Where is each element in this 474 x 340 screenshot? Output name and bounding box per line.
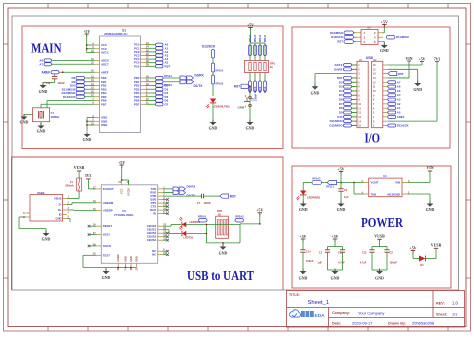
- svg-text:+5V: +5V: [381, 20, 388, 24]
- svg-text:GND: GND: [39, 90, 48, 94]
- svg-text:1/1: 1/1: [452, 313, 457, 317]
- wire LEDPWR to ground: [302, 195, 304, 204]
- svg-text:GND: GND: [101, 123, 107, 127]
- svg-text:1uF: 1uF: [317, 261, 322, 265]
- power labels VIN +5V 7V3 (I/O): [406, 57, 441, 62]
- svg-text:CBUS4: CBUS4: [147, 238, 157, 242]
- capacitor C11 4.7uF: [338, 247, 345, 271]
- net flag D13/SCK (header right): [388, 123, 409, 127]
- power VUSB (C12/C2): [374, 235, 385, 247]
- svg-text:USB to UART: USB to UART: [187, 268, 254, 283]
- canvas border: [12, 16, 459, 290]
- svg-text:PB7: PB7: [101, 102, 107, 106]
- svg-text:TITLE:: TITLE:: [289, 293, 300, 297]
- section box MAIN: [22, 26, 283, 149]
- wires C12/C2 bottom: [372, 270, 387, 271]
- wires RP1 top: [250, 28, 265, 61]
- svg-text:POWER: POWER: [361, 215, 403, 230]
- svg-text:RST: RST: [165, 64, 171, 68]
- power +5V (LEDs): [256, 209, 263, 225]
- section box I/O: [292, 27, 450, 148]
- svg-text:C14: C14: [306, 250, 311, 254]
- svg-text:4.7uF: 4.7uF: [360, 261, 367, 265]
- svg-text:D1: D1: [420, 263, 424, 267]
- svg-text:ADJ/GND: ADJ/GND: [387, 192, 400, 196]
- svg-text:RST: RST: [230, 194, 236, 198]
- capacitor C1 1uF: [317, 247, 342, 271]
- led LEDPWR1: [297, 183, 321, 201]
- resistor RP1A2 (power led): [303, 177, 341, 188]
- svg-text:D0/RX: D0/RX: [187, 185, 196, 189]
- svg-text:U1: U1: [383, 174, 387, 178]
- svg-text:GND: GND: [246, 127, 255, 131]
- svg-text:AGND: AGND: [116, 254, 120, 262]
- svg-text:GND: GND: [380, 49, 389, 53]
- svg-text:LEDBUILTIN1: LEDBUILTIN1: [213, 104, 231, 108]
- capacitor C12 100nF: [43, 74, 65, 85]
- svg-text:AREF: AREF: [41, 71, 50, 75]
- resistor network RP1 1k: [245, 61, 276, 73]
- power +5V (C14): [300, 235, 307, 250]
- svg-text:GND: GND: [129, 256, 133, 262]
- svg-text:100nF: 100nF: [390, 261, 398, 265]
- resistor RP1A2 chain: [211, 58, 224, 96]
- svg-text:GND: GND: [135, 256, 139, 262]
- wire crystal bottom to ground: [40, 122, 42, 126]
- svg-text:RSCK: RSCK: [265, 86, 267, 93]
- power +5V (diode): [410, 246, 420, 258]
- capacitor C6 (RST): [238, 93, 258, 109]
- svg-text:USBDP: USBDP: [103, 208, 113, 212]
- svg-text:C11: C11: [338, 251, 343, 255]
- svg-text:1uF: 1uF: [344, 195, 349, 199]
- svg-text:+5V: +5V: [247, 23, 254, 27]
- net flag RP2A1: [198, 215, 207, 222]
- logo EasyEDA: [290, 310, 326, 319]
- power +5V (MAIN MCU): [83, 30, 90, 37]
- wire VIN to regulator: [407, 171, 430, 183]
- svg-text:RST: RST: [398, 72, 404, 76]
- svg-text:+5V: +5V: [419, 58, 426, 62]
- led LEDTX1: [163, 226, 194, 239]
- ground (FT232): [102, 268, 111, 281]
- svg-text:3V3: 3V3: [85, 174, 92, 178]
- net flags A6 A7 (ADC pins): [39, 59, 94, 67]
- mcu U1 ATMEGA328P-AU: [91, 28, 149, 132]
- svg-text:16MHz: 16MHz: [51, 115, 60, 119]
- net flag RST (MAIN): [234, 84, 251, 91]
- svg-text:D1/TX: D1/TX: [187, 194, 196, 198]
- svg-text:ADC7: ADC7: [101, 62, 109, 66]
- svg-text:A7: A7: [39, 62, 43, 66]
- svg-text:RSCK: RSCK: [255, 86, 257, 93]
- svg-text:D0/RX: D0/RX: [195, 74, 205, 78]
- ground (header left): [311, 74, 352, 96]
- net flag RST (PC6): [146, 64, 171, 68]
- svg-text:GND: GND: [102, 276, 111, 280]
- net flags D2-D7 (PD2-PD7): [146, 84, 169, 107]
- label POWER: [361, 215, 403, 230]
- resistor RP1B1 + arrows D1/TX: [146, 80, 204, 88]
- capacitor C4 1uF: [338, 183, 349, 204]
- svg-text:500mA: 500mA: [65, 183, 74, 187]
- wire VIN to header row4: [388, 61, 409, 78]
- led LEDRX1: [163, 217, 201, 227]
- net flag RP2A2: [235, 215, 244, 222]
- svg-text:GND: GND: [331, 277, 340, 281]
- section box USB to UART: [12, 157, 284, 290]
- resistor network RP2 1K: [216, 209, 229, 238]
- svg-text:GND: GND: [413, 88, 422, 92]
- svg-text:D0/RX: D0/RX: [334, 67, 342, 71]
- ground (RP2): [219, 244, 228, 256]
- svg-text:Sheet:: Sheet:: [436, 313, 447, 317]
- header USB shield connectors: [352, 56, 388, 128]
- ground (USB2): [42, 231, 51, 242]
- svg-text:+5V: +5V: [338, 167, 345, 171]
- svg-text:Sheet_1: Sheet_1: [308, 300, 330, 306]
- capacitor C7 100nF + RST flag: [163, 194, 236, 205]
- svg-text:LEDPWR1: LEDPWR1: [307, 196, 321, 200]
- wire +5V to header row1: [388, 62, 422, 66]
- crystal Y1 16MHz: [33, 108, 60, 122]
- svg-text:RP1A2: RP1A2: [313, 177, 322, 180]
- ground (MCU GND pins): [83, 118, 95, 143]
- net flag D11/MOSI (ICSP): [386, 35, 409, 39]
- wire GND (I/O right): [388, 69, 422, 92]
- svg-text:RI: RI: [153, 212, 156, 216]
- ground (LED): [209, 120, 218, 131]
- wire USB2 D+ to USBDP: [67, 209, 96, 211]
- net flags ICSP left: [330, 31, 356, 44]
- svg-text:VOUT: VOUT: [371, 181, 379, 185]
- regulator U1 AMS1117: [361, 174, 410, 197]
- svg-text:LEDTX1: LEDTX1: [183, 235, 194, 239]
- wire USB2 GND down: [67, 219, 70, 223]
- svg-text:2023-09-17: 2023-09-17: [352, 321, 373, 326]
- svg-text:+5V: +5V: [83, 30, 90, 34]
- label MAIN: [31, 41, 62, 56]
- svg-text:1.0: 1.0: [452, 301, 458, 306]
- svg-text:RP1C1: RP1C1: [326, 186, 335, 189]
- net flag RST (header right): [388, 72, 404, 76]
- svg-text:GND: GND: [37, 130, 46, 134]
- ground (C4): [337, 201, 346, 212]
- wire LED to ground: [212, 103, 214, 122]
- svg-text:GND: GND: [299, 277, 308, 281]
- power VUSB flag: [74, 166, 85, 178]
- svg-text:+5V: +5V: [410, 246, 417, 250]
- svg-text:VIN: VIN: [426, 166, 433, 170]
- svg-text:D13/SCK: D13/SCK: [331, 35, 343, 39]
- svg-text:G: G: [23, 213, 25, 215]
- svg-text:RP2A1: RP2A1: [198, 215, 207, 219]
- svg-text:ATMEGA328P-AU: ATMEGA328P-AU: [104, 32, 127, 36]
- connector USB2: [23, 191, 70, 221]
- svg-text:D1/TX: D1/TX: [194, 84, 204, 88]
- svg-text:AREF: AREF: [397, 115, 405, 119]
- svg-text:RP1A2: RP1A2: [216, 83, 225, 86]
- svg-text:VUSB: VUSB: [431, 244, 442, 248]
- ground (ICSP): [380, 42, 389, 53]
- svg-text:D11/MOSI: D11/MOSI: [396, 35, 409, 39]
- net flag 3V3: [85, 174, 92, 179]
- wire PB6/PB7 to crystal: [41, 101, 95, 108]
- power +5V (FT232): [118, 161, 128, 185]
- net flags D8-D13 (PB0-PB5): [62, 76, 95, 99]
- svg-text:AVCC: AVCC: [101, 51, 109, 55]
- net flags header right column: [388, 80, 405, 119]
- svg-text:RP1A1: RP1A1: [249, 34, 252, 42]
- wire ADJ/GND to ground: [407, 194, 430, 204]
- svg-text:D-: D-: [59, 203, 62, 207]
- svg-text:3V3OUT: 3V3OUT: [103, 187, 114, 191]
- svg-text:GND: GND: [219, 252, 228, 256]
- svg-text:D+: D+: [58, 208, 62, 212]
- net flags D0/RX D1/TX (FT232): [163, 185, 196, 198]
- net flag AREF + wire: [41, 71, 94, 75]
- resistor RP1A1 + arrows D0/RX: [146, 74, 205, 81]
- title block texts: [289, 293, 458, 326]
- svg-text:RST: RST: [234, 84, 240, 88]
- label I/O: [365, 131, 381, 146]
- svg-text:C4: C4: [344, 188, 348, 192]
- svg-text:RP1A1: RP1A1: [216, 70, 225, 73]
- svg-text:20h65a0208: 20h65a0208: [412, 321, 435, 326]
- no-connect marks (FT232 left): [88, 225, 97, 247]
- svg-text:GND: GND: [124, 256, 128, 262]
- svg-text:TEST: TEST: [103, 253, 110, 257]
- svg-text:GND: GND: [209, 127, 218, 131]
- junction dots VCC: [86, 44, 88, 50]
- svg-text:NC: NC: [152, 253, 156, 257]
- net flags above RP1: [249, 34, 267, 55]
- ground (AREF cap): [39, 83, 48, 94]
- svg-text:100nF: 100nF: [57, 81, 65, 85]
- svg-text:RP2A2: RP2A2: [235, 215, 244, 219]
- svg-text:+5V: +5V: [300, 235, 307, 239]
- svg-text:VCCIO: VCCIO: [126, 188, 130, 196]
- power VIN flag: [426, 166, 433, 171]
- ground (crystal left): [20, 114, 29, 125]
- svg-text:USBDM: USBDM: [103, 201, 114, 205]
- wire 3V3 to 3V3OUT: [88, 179, 96, 189]
- wires C1/C11 bottom: [328, 270, 343, 271]
- title block frame: [287, 291, 465, 328]
- svg-text:RP1A1: RP1A1: [259, 34, 262, 42]
- net flags header left column: [329, 63, 357, 127]
- svg-text:OSCI: OSCI: [103, 233, 110, 237]
- svg-text:EDA: EDA: [315, 313, 326, 319]
- wires RP2/LED loop: [186, 224, 259, 247]
- ground (LEDPWR): [299, 201, 308, 212]
- wire RST to ground: [249, 92, 251, 123]
- svg-text:GND: GND: [56, 217, 62, 221]
- svg-text:+5V: +5V: [256, 209, 263, 213]
- svg-text:U5: U5: [122, 209, 126, 213]
- svg-text:C2: C2: [390, 251, 394, 255]
- power +5V (C1/C11): [332, 235, 339, 247]
- capacitor C14 100nF: [300, 250, 313, 272]
- svg-text:D13/SCK: D13/SCK: [63, 95, 76, 99]
- svg-text:OSCO: OSCO: [103, 244, 112, 248]
- net flag D13/SCK (LED chain): [202, 45, 216, 58]
- svg-text:GND: GND: [337, 208, 346, 212]
- svg-text:RP1: RP1: [270, 62, 276, 66]
- svg-text:Company:: Company:: [332, 311, 350, 315]
- wire USB2 D- to USBDM: [67, 203, 96, 205]
- ground (crystal bottom): [37, 123, 46, 134]
- svg-text:VUSB: VUSB: [374, 235, 385, 239]
- wire TEST to ground rail: [83, 255, 137, 268]
- svg-text:C12: C12: [362, 251, 367, 255]
- wire +5V to VCC pins: [87, 34, 95, 53]
- net flags below RP1: [249, 73, 267, 94]
- svg-text:GND: GND: [83, 138, 92, 142]
- power +5V (RP1 pullups): [247, 23, 254, 30]
- svg-text:Drawn By:: Drawn By:: [388, 322, 406, 326]
- svg-text:TAB: TAB: [371, 192, 377, 196]
- svg-text:VUSB: VUSB: [74, 166, 85, 170]
- svg-text:D12/MISO: D12/MISO: [329, 123, 343, 127]
- svg-text:PD7: PD7: [134, 102, 140, 106]
- svg-text:4.7uF: 4.7uF: [338, 261, 345, 265]
- svg-text:GND: GND: [426, 208, 435, 212]
- svg-text:AREF: AREF: [101, 70, 109, 74]
- svg-text:D13/SCK: D13/SCK: [397, 123, 409, 127]
- svg-text:100nF: 100nF: [306, 259, 314, 263]
- svg-text:D12/MISO: D12/MISO: [330, 31, 344, 35]
- wire fuse to VBUS: [67, 191, 79, 199]
- svg-text:GND: GND: [42, 238, 51, 242]
- svg-text:FT232RL-REEL: FT232RL-REEL: [114, 213, 134, 217]
- ground (RST net): [246, 120, 255, 131]
- svg-text:D7: D7: [165, 102, 169, 106]
- wire VOUT net: [340, 182, 363, 194]
- svg-text:Date:: Date:: [332, 322, 341, 326]
- ground (C12/C2): [375, 269, 384, 281]
- header ICSP (I/O top): [356, 28, 383, 45]
- svg-text:GND: GND: [375, 277, 384, 281]
- power +5V (ICSP): [381, 20, 388, 33]
- svg-text:Your Company: Your Company: [358, 311, 384, 316]
- svg-text:VBUS: VBUS: [54, 197, 62, 201]
- svg-text:RSCK: RSCK: [260, 86, 262, 93]
- label USB to UART: [187, 268, 254, 283]
- svg-text:VIN: VIN: [395, 181, 400, 185]
- svg-text:VCC: VCC: [120, 188, 124, 194]
- svg-text:+5V: +5V: [118, 161, 125, 165]
- section box POWER: [292, 166, 451, 288]
- svg-text:RP1A1: RP1A1: [164, 75, 173, 78]
- svg-text:RP1A1: RP1A1: [264, 34, 267, 42]
- svg-text:USB: USB: [366, 56, 374, 60]
- svg-text:PC6: PC6: [134, 64, 140, 68]
- svg-text:ID: ID: [59, 213, 62, 217]
- svg-text:RST: RST: [337, 40, 343, 44]
- power VUSB (diode out): [426, 244, 442, 259]
- fuse F1 500mA: [65, 178, 81, 191]
- ground (regulator): [426, 201, 435, 212]
- svg-text:C1: C1: [319, 251, 323, 255]
- capacitor C12 4.7uF: [360, 247, 387, 271]
- svg-text:I/O: I/O: [365, 131, 381, 146]
- svg-text:RESET: RESET: [103, 224, 113, 228]
- wire crystal left to ground: [24, 115, 33, 117]
- wire USB2 shell loop: [19, 217, 46, 233]
- ic U5 FT232RL-REEL: [93, 180, 167, 271]
- svg-text:REV:: REV:: [436, 302, 445, 306]
- svg-text:+5V: +5V: [332, 235, 339, 239]
- svg-text:RP1A1: RP1A1: [254, 34, 257, 42]
- svg-text:C12: C12: [46, 81, 51, 85]
- diode D1: [419, 256, 426, 268]
- net flags A0-A5 (PC0-PC5): [146, 43, 169, 65]
- svg-text:GND: GND: [238, 105, 244, 109]
- svg-text:MAIN: MAIN: [31, 41, 62, 56]
- power +5V (regulator out): [338, 167, 345, 182]
- capacitor C2 100nF: [384, 247, 397, 271]
- svg-text:GND: GND: [311, 92, 320, 96]
- svg-text:C7: C7: [197, 201, 201, 205]
- svg-text:100nF: 100nF: [204, 201, 212, 205]
- led LEDBUILTIN1: [206, 99, 230, 109]
- svg-text:VIN: VIN: [406, 57, 413, 61]
- svg-text:GND: GND: [299, 208, 308, 212]
- svg-text:GND: GND: [20, 121, 29, 125]
- svg-text:D13/SCK: D13/SCK: [202, 45, 216, 49]
- svg-text:1K: 1K: [218, 212, 221, 216]
- ground (C1/C11): [331, 269, 340, 281]
- ground (C14): [299, 269, 308, 281]
- svg-text:7V3: 7V3: [434, 58, 441, 62]
- svg-text:100nF: 100nF: [254, 93, 257, 101]
- no-connect marks (FT232 right): [163, 198, 169, 256]
- wire 7V3 down right: [388, 62, 437, 122]
